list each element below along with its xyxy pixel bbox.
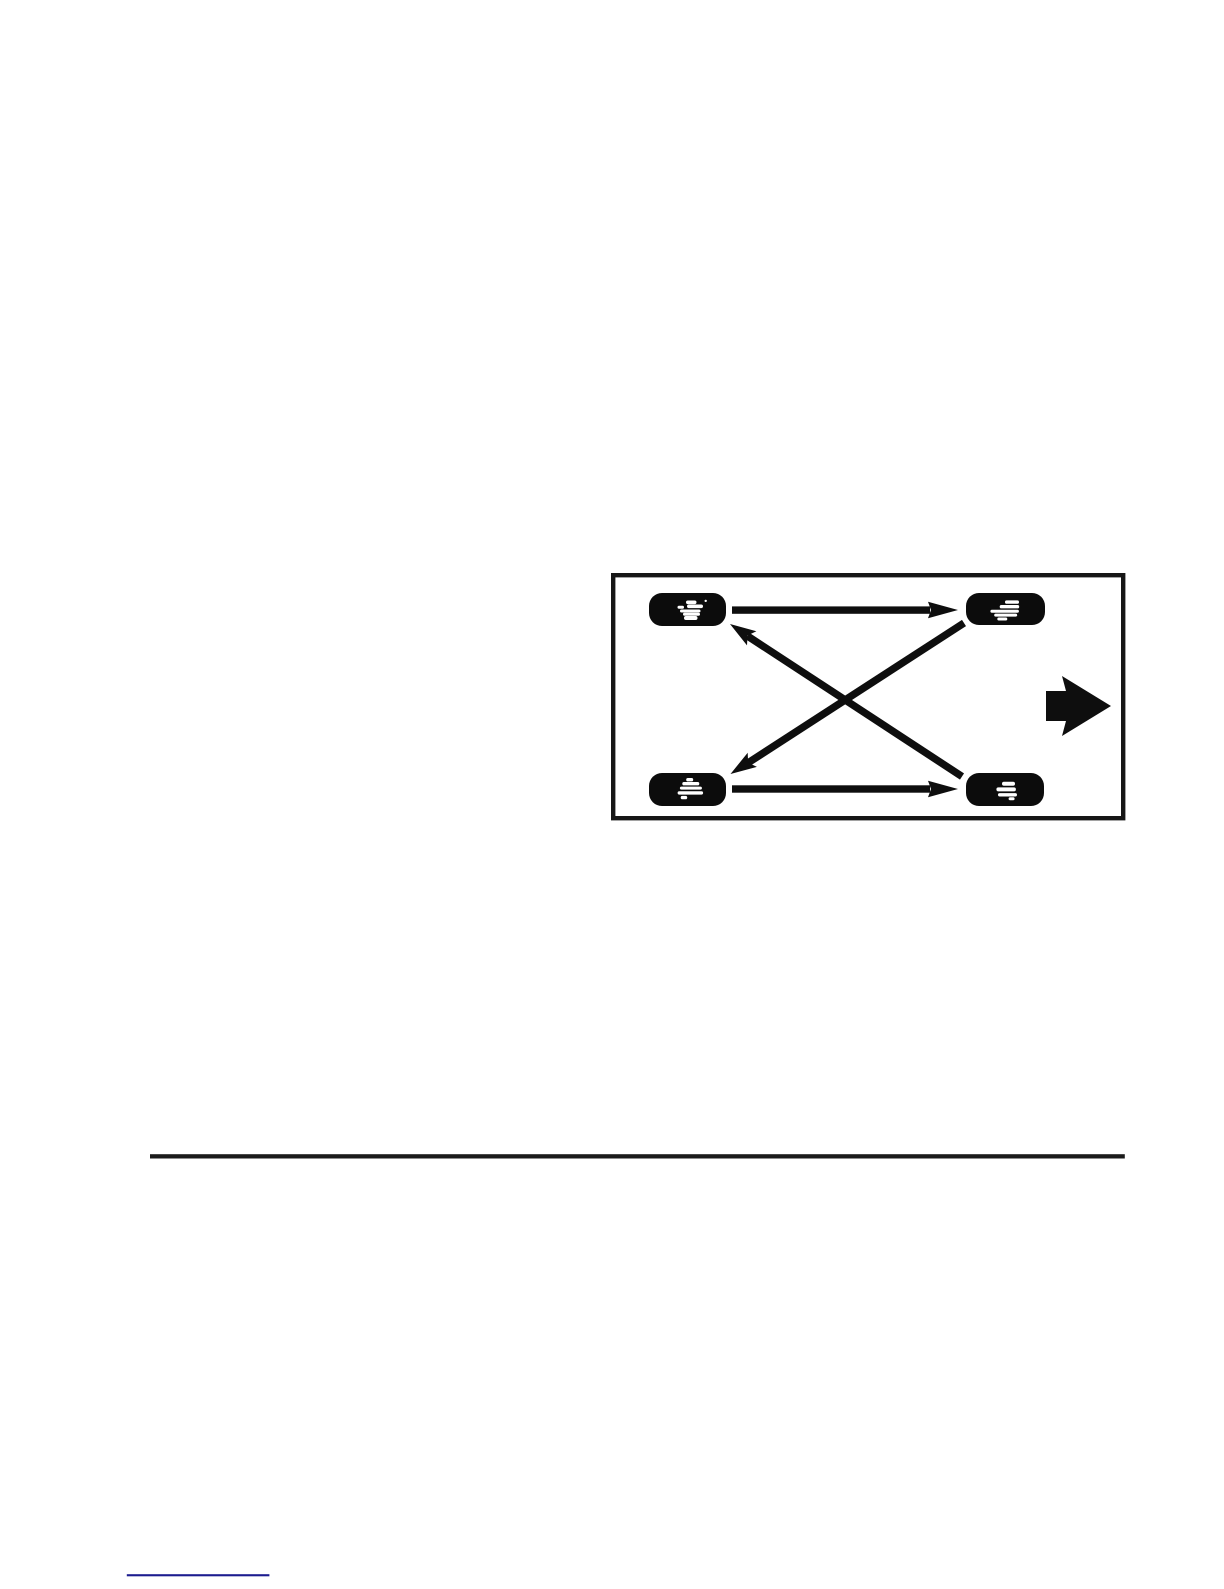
rear rotation arrow (LR to RR): [732, 781, 958, 797]
tread marks on LR tire: [678, 778, 704, 799]
tire RF (top-right): [966, 593, 1045, 625]
tire RR (bottom-right): [966, 773, 1044, 806]
direction-of-travel arrow: [1046, 676, 1111, 736]
cross arrow (RF to LR): [731, 623, 965, 774]
cross arrow (RR to LF): [730, 624, 962, 777]
tread marks on RR tire: [996, 782, 1017, 801]
hyperlink underline: [127, 1574, 270, 1576]
tire LR (bottom-left): [649, 773, 726, 806]
front rotation arrow (LF to RF): [732, 602, 958, 618]
tire LF (top-left): [649, 593, 726, 626]
tread marks on LF tire: [678, 600, 707, 620]
tread marks on RF tire: [990, 600, 1019, 620]
diagram frame: [613, 575, 1123, 818]
section divider rule: [150, 1154, 1125, 1158]
